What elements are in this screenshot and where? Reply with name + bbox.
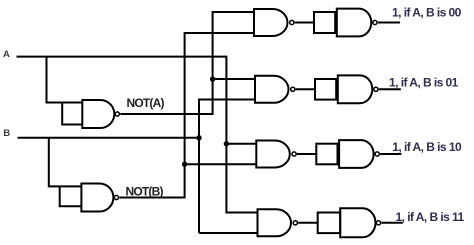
svg-text:1, if A, B is 11: 1, if A, B is 11 bbox=[396, 210, 465, 224]
svg-text:1, if A, B is 10: 1, if A, B is 10 bbox=[392, 140, 462, 154]
svg-text:B: B bbox=[3, 128, 10, 139]
svg-text:NOT(A): NOT(A) bbox=[127, 96, 165, 110]
svg-text:1, if A, B is 00: 1, if A, B is 00 bbox=[392, 5, 462, 19]
svg-text:A: A bbox=[3, 49, 10, 60]
svg-text:1, if A, B is 01: 1, if A, B is 01 bbox=[389, 76, 459, 90]
svg-text:NOT(B): NOT(B) bbox=[126, 185, 164, 199]
